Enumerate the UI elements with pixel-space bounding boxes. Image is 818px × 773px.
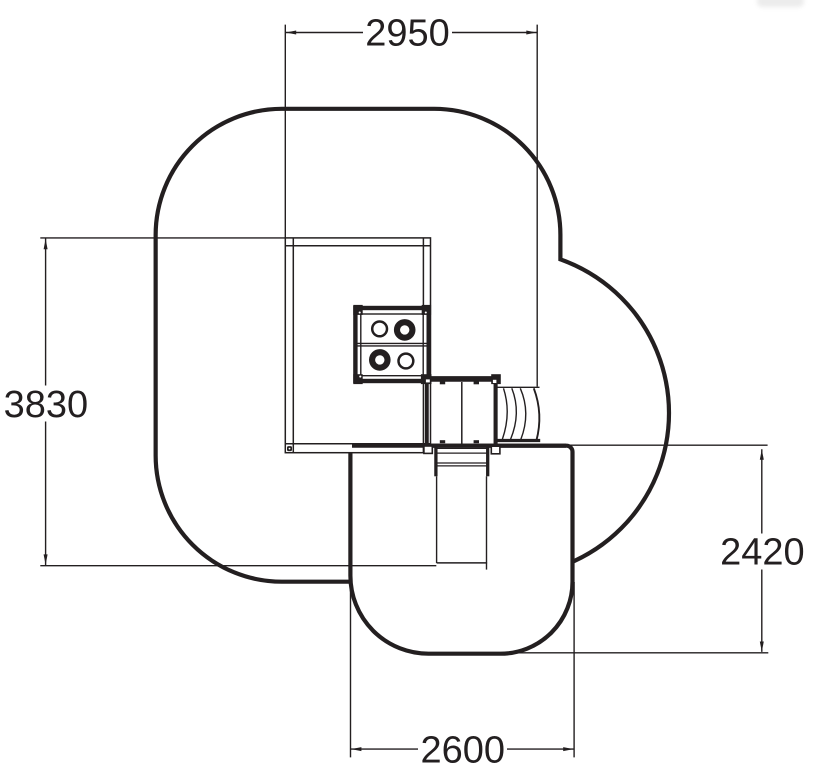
panel square (thick) bbox=[355, 308, 428, 381]
dimension line 2950 bbox=[285, 32, 537, 34]
extension line top-right vertical (2950 right) bbox=[536, 25, 538, 387]
arrow 2600 right bbox=[563, 747, 573, 751]
panel corner posts (dark with pinholes) bbox=[353, 305, 431, 384]
slide right edge arc bbox=[534, 388, 540, 441]
extension line left bottom horizontal (3830 bottom) bbox=[40, 565, 436, 567]
arrow 2950 right bbox=[526, 31, 536, 35]
deck corner dot bbox=[287, 446, 292, 451]
platform top bar bbox=[424, 376, 492, 382]
arrow 2420 bottom bbox=[760, 642, 764, 652]
svg-text:2950: 2950 bbox=[365, 13, 450, 55]
slide bottom bar bbox=[497, 439, 541, 442]
slide arc 2 bbox=[511, 388, 517, 439]
panel BR post hole bbox=[426, 379, 430, 382]
ladder right rail bbox=[486, 447, 489, 476]
slide top line bbox=[497, 386, 540, 388]
platform right edge bbox=[494, 381, 498, 446]
circle bottom-left large bbox=[372, 352, 388, 368]
lower box left side bbox=[436, 476, 438, 563]
deck square inner border bbox=[285, 238, 430, 453]
arrow 2600 left bbox=[351, 747, 361, 751]
bottom blob top edge (redrawn over deck) bbox=[352, 444, 566, 448]
ladder left rail bbox=[434, 447, 437, 476]
arrow 3830 top bbox=[44, 239, 48, 249]
arrow 3830 bottom bbox=[44, 554, 48, 564]
extension line right top horizontal (2420 top) bbox=[497, 444, 768, 446]
slide arc 1 bbox=[502, 388, 507, 439]
panel inner thin frame bbox=[361, 314, 423, 376]
extension line bottom-right vertical (2600 right) bbox=[573, 582, 575, 757]
slide arc 3 bbox=[520, 388, 525, 439]
platform bottom posts (white with border) bbox=[424, 446, 500, 454]
platform top-right post (dark with hole) bbox=[491, 374, 501, 384]
platform left edge bbox=[425, 381, 429, 446]
deck square outer border bbox=[285, 238, 430, 453]
platform tabs under top bar bbox=[440, 382, 445, 385]
extension line top-left vertical (2950 left) bbox=[284, 25, 286, 238]
circle top-right large bbox=[397, 322, 413, 338]
svg-text:2420: 2420 bbox=[720, 531, 805, 573]
extension line right bottom horizontal (2420 bottom) bbox=[507, 652, 768, 654]
svg-text:2600: 2600 bbox=[421, 729, 506, 771]
circle top-left small bbox=[372, 322, 387, 337]
bottom safety blob bbox=[350, 446, 572, 654]
extension line left top horizontal (3830 top) bbox=[40, 237, 285, 239]
safety zone outline: big rounded square + right circle (union) bbox=[158, 111, 667, 580]
lower box bottom bbox=[437, 562, 488, 564]
arrow 2420 top bbox=[760, 449, 764, 459]
circle bottom-right small bbox=[399, 354, 414, 369]
extension line bottom-left vertical (2600 left) bbox=[350, 574, 352, 757]
dimension line 3830 bbox=[45, 239, 47, 566]
lower box right side bbox=[486, 476, 488, 569]
ladder rungs bbox=[437, 448, 487, 466]
dimension line 2600 bbox=[351, 748, 575, 750]
panel midline bbox=[358, 342, 427, 344]
arrow 2950 left bbox=[286, 31, 296, 35]
platform tabs above bottom bar bbox=[440, 440, 445, 443]
svg-text:3830: 3830 bbox=[4, 384, 89, 426]
dimension line 2420 bbox=[761, 449, 763, 652]
platform divider bbox=[461, 382, 463, 444]
